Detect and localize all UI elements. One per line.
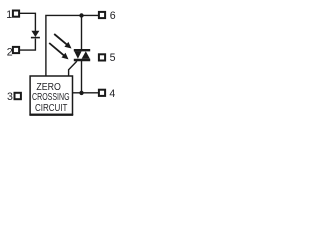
wire triac gate to zero crossing box [69, 61, 77, 76]
wire top rail from zero crossing box to pin 6 [46, 15, 99, 76]
svg-text:5: 5 [110, 52, 116, 64]
pin 5 pad (NC) [99, 54, 105, 60]
svg-text:CIRCUIT: CIRCUIT [35, 102, 68, 114]
LED cathode bar [31, 37, 40, 39]
svg-text:3: 3 [7, 91, 13, 103]
pin 3 pad (NC) [15, 93, 21, 99]
svg-text:2: 2 [7, 47, 13, 59]
pin 1 pad [13, 11, 19, 17]
wire top rail to triac MT2 [81, 15, 83, 50]
triac Q1 [74, 50, 90, 60]
junction node at top rail [79, 13, 83, 17]
wire pin 1 to LED anode [20, 13, 36, 31]
pin 2 pad [13, 47, 19, 53]
wire LED cathode to pin 2 [20, 39, 36, 51]
svg-text:4: 4 [109, 88, 115, 100]
wire triac MT1 to bottom rail [81, 61, 83, 93]
pin 6 pad [99, 12, 105, 18]
LED anode triangle [31, 31, 39, 37]
wire bottom rail from zero crossing box to pin 4 [73, 92, 99, 94]
junction node at bottom rail [79, 91, 83, 95]
svg-text:1: 1 [6, 9, 12, 21]
zero crossing circuit box U1 [30, 76, 72, 114]
zero crossing box bottom edge emphasis [29, 114, 73, 116]
light emission arrow 2 [49, 43, 68, 59]
light emission arrow 1 [54, 34, 71, 49]
pin 4 pad [99, 90, 105, 96]
svg-text:6: 6 [110, 10, 116, 22]
